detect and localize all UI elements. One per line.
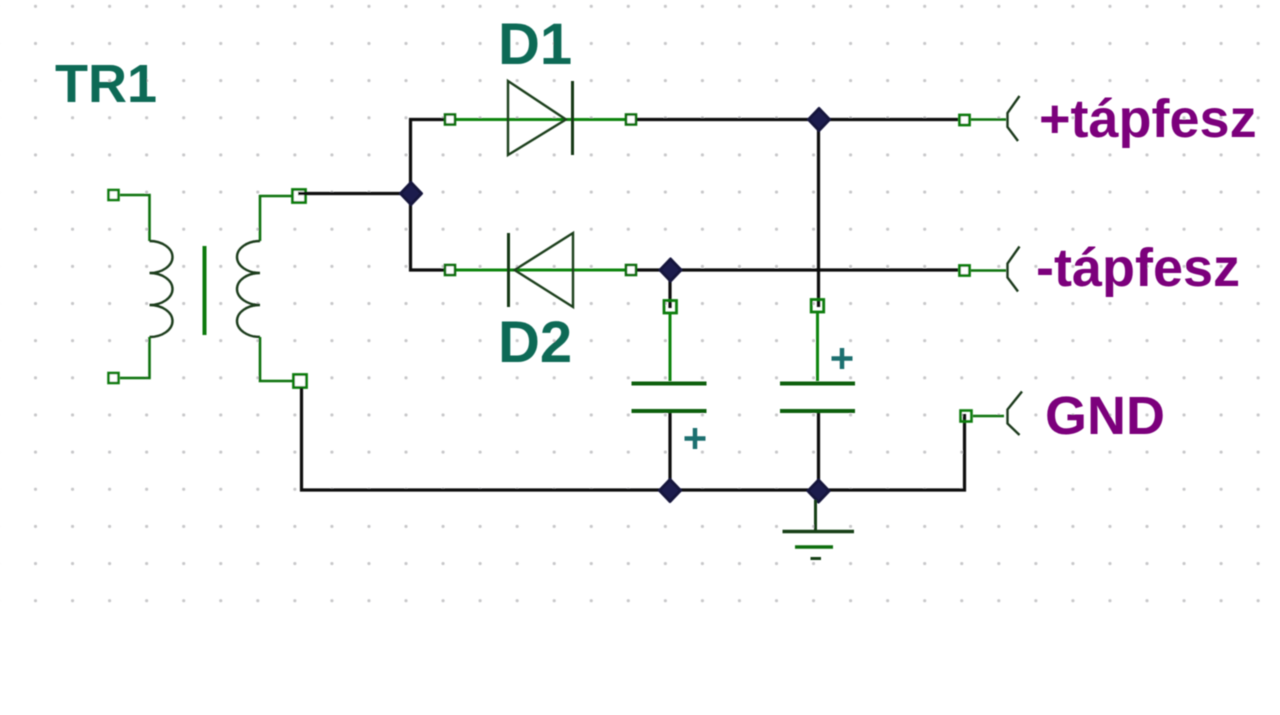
capacitor C1 bottom lead: [668, 413, 671, 489]
label -tapfesz: [1036, 238, 1240, 298]
label GND: [1045, 386, 1165, 446]
wire TR1 pin3 to node A: [298, 192, 406, 195]
capacitor C1 top plate: [632, 382, 707, 386]
capacitor C2 bottom plate: [780, 409, 855, 413]
junction node D: [660, 480, 681, 502]
transformer TR1 secondary lead bottom: [260, 337, 293, 381]
pin square port +tapfesz: [960, 115, 970, 125]
pin square TR1 pin 4: [294, 375, 307, 388]
ground bar 2: [795, 545, 833, 549]
capacitor C1 plus sign: [685, 428, 706, 449]
wire D2 to -tapfesz port: [637, 268, 958, 271]
transformer TR1 primary lead top: [120, 195, 150, 241]
wire port +tapfesz stub: [971, 118, 1006, 121]
port bracket +tapfesz: [1008, 96, 1020, 141]
svg-text:D1: D1: [498, 12, 572, 77]
svg-text:GND: GND: [1045, 386, 1165, 446]
svg-text:TR1: TR1: [55, 54, 157, 114]
pin square port GND: [961, 411, 972, 422]
diode D2 cathode bar: [507, 233, 510, 307]
capacitor C2 top lead: [816, 313, 819, 381]
capacitor C2 bottom lead: [817, 413, 820, 489]
pin square D2 anode: [626, 265, 636, 275]
junction node B: [809, 109, 830, 131]
wire port -tapfesz stub: [971, 269, 1006, 272]
port bracket GND: [1008, 392, 1023, 436]
diode D2 body line: [448, 269, 633, 272]
label TR1: [55, 54, 157, 114]
capacitor C1 bottom plate: [632, 409, 707, 413]
transformer TR1 primary lead bottom: [120, 337, 150, 378]
diode D1 cathode bar: [571, 81, 574, 155]
wire node A down to D2: [411, 195, 445, 270]
wire node B down to capacitor C2: [817, 121, 820, 307]
wire node C down to capacitor C1: [668, 271, 671, 308]
label D2: [498, 310, 572, 375]
pin square port -tapfesz: [960, 266, 970, 276]
ground lead: [814, 500, 817, 530]
svg-text:D2: D2: [498, 310, 572, 375]
ground bar 3: [811, 557, 822, 560]
ground bar 1: [783, 530, 855, 534]
wire D1 to +tapfesz port: [637, 118, 958, 121]
pin square D1 cathode: [626, 115, 636, 125]
diode D2 triangle: [515, 233, 574, 307]
svg-text:+tápfesz: +tápfesz: [1039, 89, 1257, 149]
junction node A: [401, 183, 422, 205]
svg-text:-tápfesz: -tápfesz: [1036, 238, 1240, 298]
pin square capacitor C2 positive: [811, 300, 824, 313]
pin square D2 cathode: [445, 265, 455, 275]
port bracket -tapfesz: [1008, 247, 1020, 292]
wire TR1 pin4 down: [302, 388, 965, 490]
diode D1 triangle: [508, 81, 566, 155]
pin square capacitor C1 positive: [664, 301, 677, 314]
diode D1 body line: [448, 118, 633, 121]
transformer TR1 secondary lead top: [260, 196, 293, 241]
junction node C: [660, 259, 681, 281]
pin square TR1 pin 3: [293, 190, 306, 203]
transformer TR1 core: [203, 246, 207, 335]
wire port GND stub: [973, 415, 1004, 418]
transformer TR1 secondary winding: [237, 241, 260, 337]
capacitor C2 plus sign: [832, 348, 853, 369]
junction node E: [808, 480, 829, 502]
label +tapfesz: [1039, 89, 1257, 149]
pin square TR1 pin 1: [109, 190, 119, 200]
label D1: [498, 12, 572, 77]
pin square TR1 pin 2: [109, 373, 119, 383]
wire node A up to D1: [411, 120, 445, 193]
capacitor C2 top plate: [780, 382, 855, 386]
capacitor C1 top lead: [669, 313, 672, 381]
pin square D1 anode: [445, 115, 455, 125]
transformer TR1 primary winding: [150, 241, 173, 337]
